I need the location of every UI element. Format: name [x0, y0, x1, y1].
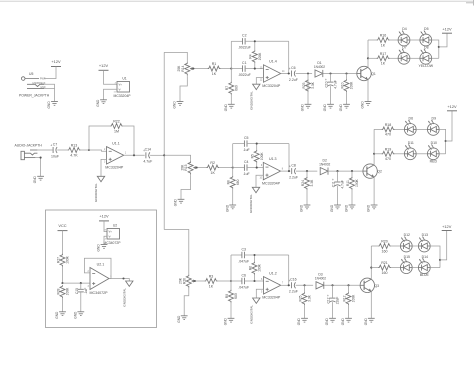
- wire R6 bottom: [254, 274, 256, 281]
- wire U1.4 output: [281, 73, 290, 75]
- svg-text:3.3K: 3.3K: [311, 81, 315, 89]
- capacitor C7 10uF: [50, 142, 59, 158]
- junction U1.1 output: [133, 154, 135, 156]
- op-amp U1.4 MC33204P: [260, 60, 285, 88]
- svg-text:680: 680: [234, 293, 238, 299]
- resistor R17 1K: [377, 52, 390, 66]
- junction C10 top: [329, 72, 331, 74]
- wire signal bus vertical: [163, 52, 165, 229]
- frame top edge: [0, 0, 474, 2]
- svg-text:GNDDIGITAL: GNDDIGITAL: [249, 305, 253, 324]
- ground (R25): [297, 317, 308, 325]
- wire R25 leads: [304, 285, 306, 292]
- wire U2.1 feedback: [84, 258, 111, 278]
- LED D4: [398, 27, 410, 46]
- wire D10 to rail ch2: [439, 153, 445, 155]
- svg-text:2.2uF: 2.2uF: [289, 176, 298, 180]
- svg-text:GND: GND: [97, 244, 101, 252]
- svg-text:.1uF: .1uF: [84, 288, 88, 295]
- wire D15 to D14: [412, 267, 418, 269]
- svg-text:GND: GND: [177, 315, 181, 323]
- wire C2 to right rail ch1: [245, 40, 289, 42]
- wire C10 leads: [330, 74, 332, 83]
- wire D4 to D5: [410, 39, 420, 41]
- junction R4 top: [254, 40, 256, 42]
- wire R2 to node A2: [219, 167, 233, 169]
- svg-text:R26: R26: [182, 278, 186, 284]
- resistor R7 680: [225, 82, 238, 95]
- resistor R12 100K: [342, 292, 355, 305]
- wire to R16: [368, 39, 377, 41]
- wire Q3 collector: [370, 246, 372, 279]
- resistor R24 3.3K: [301, 177, 314, 190]
- wire power jack GND pins: [44, 84, 55, 88]
- wire C7 to R13: [57, 149, 67, 151]
- diode D3 1N4002: [315, 273, 326, 289]
- node A2: [232, 167, 234, 169]
- wire to R17: [368, 57, 377, 59]
- wire right rail ch3: [288, 255, 290, 285]
- svg-text:C8: C8: [291, 164, 296, 168]
- wire feedback up: [89, 126, 110, 150]
- wire R19 to D11: [394, 153, 404, 155]
- svg-text:R25: R25: [298, 295, 302, 301]
- wire to R20: [371, 245, 378, 247]
- resistor R20 160: [378, 240, 391, 254]
- svg-text:GNDDIGITAL: GNDDIGITAL: [249, 194, 253, 213]
- svg-text:R11: R11: [346, 180, 350, 186]
- svg-text:GND: GND: [225, 204, 229, 212]
- wire R12 leads: [348, 285, 350, 292]
- svg-text:C14: C14: [145, 148, 151, 152]
- ground (Q1 emitter): [361, 101, 372, 109]
- resistor R28 100K: [56, 285, 69, 298]
- svg-text:+: +: [332, 178, 334, 182]
- svg-text:GND: GND: [174, 198, 178, 206]
- svg-text:.1uF: .1uF: [243, 148, 250, 152]
- svg-text:C6: C6: [241, 273, 246, 277]
- svg-text:R8: R8: [227, 180, 231, 184]
- svg-text:GNDBREAK: GNDBREAK: [32, 82, 46, 85]
- resistor R2 1K: [206, 161, 219, 175]
- svg-text:D6: D6: [409, 117, 414, 121]
- svg-text:3.3K: 3.3K: [308, 294, 312, 302]
- resistor R25 3.3K: [298, 292, 311, 305]
- svg-text:D7: D7: [402, 46, 407, 50]
- svg-text:1K: 1K: [381, 62, 386, 66]
- svg-text:GND: GND: [301, 103, 305, 111]
- wire R13 to node IN: [80, 149, 89, 151]
- capacitor C1 .0022uF: [238, 61, 251, 77]
- svg-text:R3: R3: [209, 275, 214, 279]
- wire U2 V- to ground: [104, 236, 107, 244]
- wire D14 to rail ch3: [430, 267, 440, 269]
- junction R23 top: [307, 72, 309, 74]
- svg-text:C15: C15: [75, 288, 79, 294]
- svg-text:R17: R17: [380, 52, 387, 56]
- wire D9 to rail ch2: [439, 129, 445, 153]
- wire C12 leads: [332, 285, 334, 298]
- svg-text:4.7uF: 4.7uF: [341, 180, 345, 188]
- svg-text:U1.3: U1.3: [269, 157, 277, 161]
- svg-text:R21: R21: [381, 261, 388, 265]
- virtual ground box outline: [46, 210, 157, 328]
- svg-text:GND: GND: [339, 103, 343, 111]
- svg-text:.047uF: .047uF: [238, 285, 249, 289]
- diode D2 1N4002: [319, 159, 330, 175]
- svg-text:R24: R24: [301, 180, 305, 186]
- svg-text:GND: GND: [224, 103, 228, 111]
- wire C3 to right rail ch3: [245, 254, 289, 256]
- resistor R11 100K: [346, 177, 359, 190]
- svg-text:GNDDIGITAL: GNDDIGITAL: [249, 91, 253, 110]
- svg-text:100K: 100K: [66, 255, 70, 264]
- junction U1.2 output: [288, 284, 290, 286]
- LED D8 yellow: [419, 46, 434, 68]
- wire R26 bottom to ground: [184, 289, 189, 316]
- svg-text:+12V: +12V: [99, 63, 109, 68]
- divider node: [61, 282, 63, 284]
- wire R7 to ground: [230, 94, 232, 104]
- wire R17 to D7: [389, 57, 398, 59]
- resistor R1 1K: [208, 62, 221, 76]
- wire R10 to ground: [346, 92, 348, 104]
- svg-text:C3: C3: [241, 247, 246, 251]
- svg-text:2.2uF: 2.2uF: [289, 78, 298, 82]
- wire D2 to Q2 base: [327, 170, 363, 172]
- ground (C15): [73, 311, 84, 319]
- svg-text:Q3: Q3: [375, 284, 380, 288]
- junction U1.3 output: [288, 170, 290, 172]
- svg-text:GND: GND: [173, 101, 177, 109]
- resistor R3 1K: [205, 275, 218, 289]
- svg-text:+12V: +12V: [99, 213, 109, 218]
- resistor R10 100K: [340, 79, 353, 92]
- junction LED rows ch1: [367, 57, 369, 59]
- ground (R14): [173, 101, 184, 109]
- wire divider to U2.1 + input: [63, 282, 91, 284]
- resistor R5 100K: [251, 150, 264, 163]
- junction R14 wiper: [192, 68, 194, 70]
- wire R7 top: [230, 69, 232, 82]
- svg-text:22uF: 22uF: [336, 297, 340, 305]
- junction R10 top: [345, 72, 347, 74]
- capacitor C16 2.2uF: [289, 278, 298, 294]
- svg-text:D9: D9: [432, 117, 437, 121]
- junction rail ch3: [439, 259, 441, 261]
- svg-text:GND: GND: [361, 101, 365, 109]
- node A1: [230, 68, 232, 70]
- wire R6 top: [254, 255, 256, 262]
- wire node A2 to C4: [233, 167, 245, 169]
- svg-text:GND: GND: [325, 317, 329, 325]
- wire U1.3 + to GNDDIGITAL: [256, 175, 263, 187]
- svg-text:680: 680: [235, 85, 239, 91]
- wire D6 to D9: [416, 128, 427, 130]
- wire C5 to right rail ch2: [247, 143, 289, 145]
- ground (R12): [341, 317, 352, 325]
- LED D9: [427, 117, 439, 136]
- ground (power jack): [47, 101, 58, 109]
- wire R24 leads: [306, 171, 308, 177]
- wire U1.1 + input to GNDDIGITAL: [101, 159, 107, 176]
- svg-text:+12V: +12V: [447, 104, 457, 109]
- wire R24 to ground: [306, 190, 308, 206]
- svg-text:MC34072P: MC34072P: [90, 291, 109, 295]
- wire U1.3 output: [281, 170, 291, 172]
- svg-text:4.7uF: 4.7uF: [143, 160, 152, 164]
- resistor R18 470: [382, 123, 395, 137]
- junction R6 top: [253, 254, 255, 256]
- resistor R9 680: [225, 290, 238, 303]
- svg-text:10uF: 10uF: [51, 154, 59, 158]
- wire power jack PWR to +12V: [44, 67, 56, 79]
- wire to R18: [374, 128, 382, 130]
- wire +12V to U2 V+: [104, 221, 107, 232]
- svg-text:AUDIO-JACKPTH: AUDIO-JACKPTH: [15, 144, 43, 148]
- svg-text:D15: D15: [404, 255, 410, 259]
- svg-text:R18: R18: [385, 123, 392, 127]
- wire R9 top: [230, 281, 232, 290]
- wire node IN to U1.1 inverting input: [89, 150, 107, 151]
- wire bus to R15 top: [164, 155, 190, 159]
- wire D12 to D13: [412, 245, 418, 247]
- svg-text:R19: R19: [385, 147, 392, 151]
- wire audio sleeve to ground: [35, 158, 40, 177]
- wire node A3 up: [230, 255, 232, 281]
- svg-text:1K: 1K: [381, 43, 386, 47]
- op-amp U2.1 MC34072P: [88, 262, 113, 295]
- svg-text:+: +: [325, 78, 327, 82]
- ground (R8): [225, 204, 236, 212]
- svg-text:U1.4: U1.4: [269, 60, 277, 64]
- wire U2.1 output to GNDDIGITAL: [109, 279, 129, 282]
- svg-text:+: +: [327, 294, 329, 298]
- svg-text:+12V: +12V: [51, 59, 61, 64]
- wire U1.2 output: [281, 284, 290, 286]
- wire node A1 up: [230, 41, 232, 68]
- svg-text:D11: D11: [408, 141, 414, 145]
- diode D1 1N4002: [314, 61, 325, 77]
- wire R8 top: [232, 168, 234, 176]
- junction C12 top: [331, 284, 333, 286]
- svg-text:U1: U1: [122, 76, 126, 80]
- svg-text:D10: D10: [431, 141, 437, 145]
- svg-text:100K: 100K: [258, 52, 262, 61]
- wire C12 to ground: [332, 302, 334, 318]
- LED D12: [400, 233, 412, 252]
- svg-text:Q2: Q2: [377, 170, 382, 174]
- junction bus / audio: [163, 154, 165, 156]
- wire D3 to Q3 base: [324, 284, 360, 286]
- svg-text:3.3K: 3.3K: [310, 179, 314, 187]
- capacitor C6 .047uF: [238, 273, 249, 289]
- resistor R19 470: [382, 147, 395, 161]
- svg-text:U2: U2: [113, 223, 117, 227]
- svg-text:100K: 100K: [260, 152, 264, 161]
- svg-text:GND: GND: [300, 204, 304, 212]
- LED D7: [398, 46, 410, 65]
- svg-text:V+: V+: [109, 230, 113, 234]
- svg-text:GND: GND: [367, 204, 371, 212]
- ground GNDDIGITAL (U1.2): [249, 298, 260, 324]
- wire R20 to D12: [391, 245, 401, 247]
- svg-text:GND: GND: [341, 317, 345, 325]
- svg-text:GND: GND: [47, 101, 51, 109]
- resistor R22 1M: [110, 120, 123, 134]
- ground GNDDIGITAL (U1.3): [249, 187, 260, 213]
- svg-text:GND: GND: [96, 99, 100, 107]
- wire C11 to ground: [337, 186, 339, 205]
- capacitor C14 4.7uF: [143, 148, 152, 164]
- resistor R21 160: [378, 261, 391, 275]
- ground GNDDIGITAL (U1.1): [94, 176, 105, 202]
- LED D13: [418, 233, 430, 252]
- svg-text:D4: D4: [402, 27, 407, 31]
- wire U1 V- to ground: [104, 89, 118, 100]
- resistor R13 4.7K: [68, 144, 81, 158]
- svg-text:RED: RED: [430, 159, 438, 163]
- node IN junction: [88, 149, 90, 151]
- svg-text:R4: R4: [249, 54, 253, 58]
- svg-text:GND: GND: [323, 103, 327, 111]
- ground (Q3 emitter): [364, 317, 375, 325]
- wire R15 bottom to ground: [181, 176, 191, 200]
- svg-text:V+: V+: [119, 83, 123, 87]
- ground (R11): [345, 204, 356, 212]
- svg-text:GND: GND: [224, 317, 228, 325]
- svg-text:GND: GND: [55, 311, 59, 319]
- svg-text:C16: C16: [290, 278, 296, 282]
- svg-text:160: 160: [382, 249, 388, 253]
- wire R11 to ground: [351, 190, 353, 206]
- svg-text:D12: D12: [404, 233, 410, 237]
- LED D11: [404, 141, 416, 160]
- svg-text:GNDDIGITAL: GNDDIGITAL: [122, 288, 126, 307]
- +12V supply (LED ch2): [447, 104, 457, 111]
- wire C4 to U1.3 input: [247, 167, 263, 169]
- transistor Q3: [360, 278, 379, 292]
- op-amp U1.2 MC33204P: [261, 271, 284, 299]
- svg-text:1N4002: 1N4002: [315, 277, 326, 281]
- wire C10 to ground: [330, 86, 332, 104]
- svg-text:U1.1: U1.1: [112, 141, 120, 145]
- wire R3 to node A3: [217, 280, 231, 282]
- wire C6 to detector ch1: [296, 73, 312, 75]
- wire C1 to U1.4 input: [245, 68, 263, 70]
- junction R5 top: [256, 143, 258, 145]
- wire R14 wiper to R1: [192, 68, 208, 70]
- transistor Q1: [357, 66, 376, 80]
- svg-text:GNDDIGITAL: GNDDIGITAL: [94, 183, 98, 202]
- svg-text:20K: 20K: [180, 164, 184, 171]
- wire R18 to D6: [394, 128, 404, 130]
- op-amp U2 power block: [104, 223, 122, 245]
- svg-text:R14: R14: [181, 65, 185, 71]
- svg-text:20K: 20K: [177, 65, 181, 72]
- op-amp U1.1 MC33204P: [104, 141, 127, 169]
- svg-text:1K: 1K: [212, 72, 217, 76]
- svg-text:1M: 1M: [114, 129, 119, 133]
- svg-text:GND: GND: [73, 311, 77, 319]
- svg-text:100K: 100K: [355, 178, 359, 187]
- junction R6 bottom: [253, 280, 255, 282]
- svg-text:U2.1: U2.1: [97, 262, 105, 266]
- svg-text:R1: R1: [212, 62, 217, 66]
- svg-text:160: 160: [382, 271, 388, 275]
- wire R5 bottom: [256, 163, 258, 168]
- svg-text:MC33204P: MC33204P: [262, 181, 281, 185]
- wire R15 wiper to R2: [195, 167, 206, 169]
- wire +12V to U1 V+: [104, 70, 118, 84]
- junction R5 bottom: [256, 167, 258, 169]
- svg-text:C1: C1: [242, 61, 247, 65]
- svg-text:D13: D13: [422, 233, 428, 237]
- svg-text:470: 470: [385, 157, 391, 161]
- svg-text:R6: R6: [248, 266, 252, 270]
- svg-text:R16: R16: [380, 34, 387, 38]
- wire C15 to ground: [80, 292, 82, 312]
- wire R23 to ground: [307, 74, 309, 105]
- wire R4 top: [254, 41, 256, 50]
- wire to R21: [371, 267, 378, 269]
- wire right rail ch1: [288, 41, 290, 73]
- svg-text:100K: 100K: [66, 287, 70, 296]
- wire rail to +12V ch3: [440, 231, 447, 260]
- wire R5 top: [256, 144, 258, 150]
- svg-text:R15: R15: [184, 164, 188, 170]
- svg-text:D5: D5: [424, 27, 429, 31]
- svg-text:.1uF: .1uF: [243, 172, 250, 176]
- junction rail ch2: [445, 140, 447, 142]
- junction U1.4 output: [288, 72, 290, 74]
- svg-text:2.2uF: 2.2uF: [289, 290, 298, 294]
- capacitor C6 2.2uF: [289, 66, 298, 82]
- wire C6 to U1.2 input: [245, 280, 264, 282]
- junction R24 top: [306, 170, 308, 172]
- svg-text:1K: 1K: [210, 171, 215, 175]
- wire rail to +12V ch1: [439, 33, 447, 47]
- wire power jack to ground: [54, 89, 56, 102]
- capacitor C5 .1uF: [243, 136, 250, 152]
- junction LED rows ch2: [373, 153, 375, 155]
- junction R26 wiper: [194, 280, 196, 282]
- svg-text:U5: U5: [29, 72, 33, 76]
- frame corner mark: [466, 0, 474, 6]
- svg-text:MC33204P: MC33204P: [114, 94, 132, 98]
- +12V supply (power jack): [51, 59, 61, 67]
- wire R4 bottom: [254, 63, 256, 69]
- wire R9 to ground: [230, 302, 232, 318]
- svg-text:1N4002: 1N4002: [314, 65, 325, 69]
- potentiometer R14 20K: [177, 61, 194, 77]
- ground (R26): [177, 315, 188, 323]
- ground (C12): [325, 317, 336, 325]
- LED D5: [420, 27, 432, 46]
- wire R11 leads: [351, 171, 353, 177]
- power jack U5 body: [21, 72, 46, 89]
- wire C16 to detector ch3: [296, 284, 313, 286]
- wire D11 to D10: [416, 153, 427, 155]
- wire node A2 up: [232, 144, 234, 168]
- capacitor C4 .1uF: [243, 160, 250, 176]
- capacitor C10 4.7uF: [325, 78, 338, 89]
- svg-text:YELLOW: YELLOW: [419, 64, 434, 68]
- svg-text:20K: 20K: [179, 277, 183, 284]
- label POWER_JACKPTH: [19, 94, 50, 98]
- wire R16 to D4: [389, 39, 398, 41]
- ground (C11): [330, 204, 341, 212]
